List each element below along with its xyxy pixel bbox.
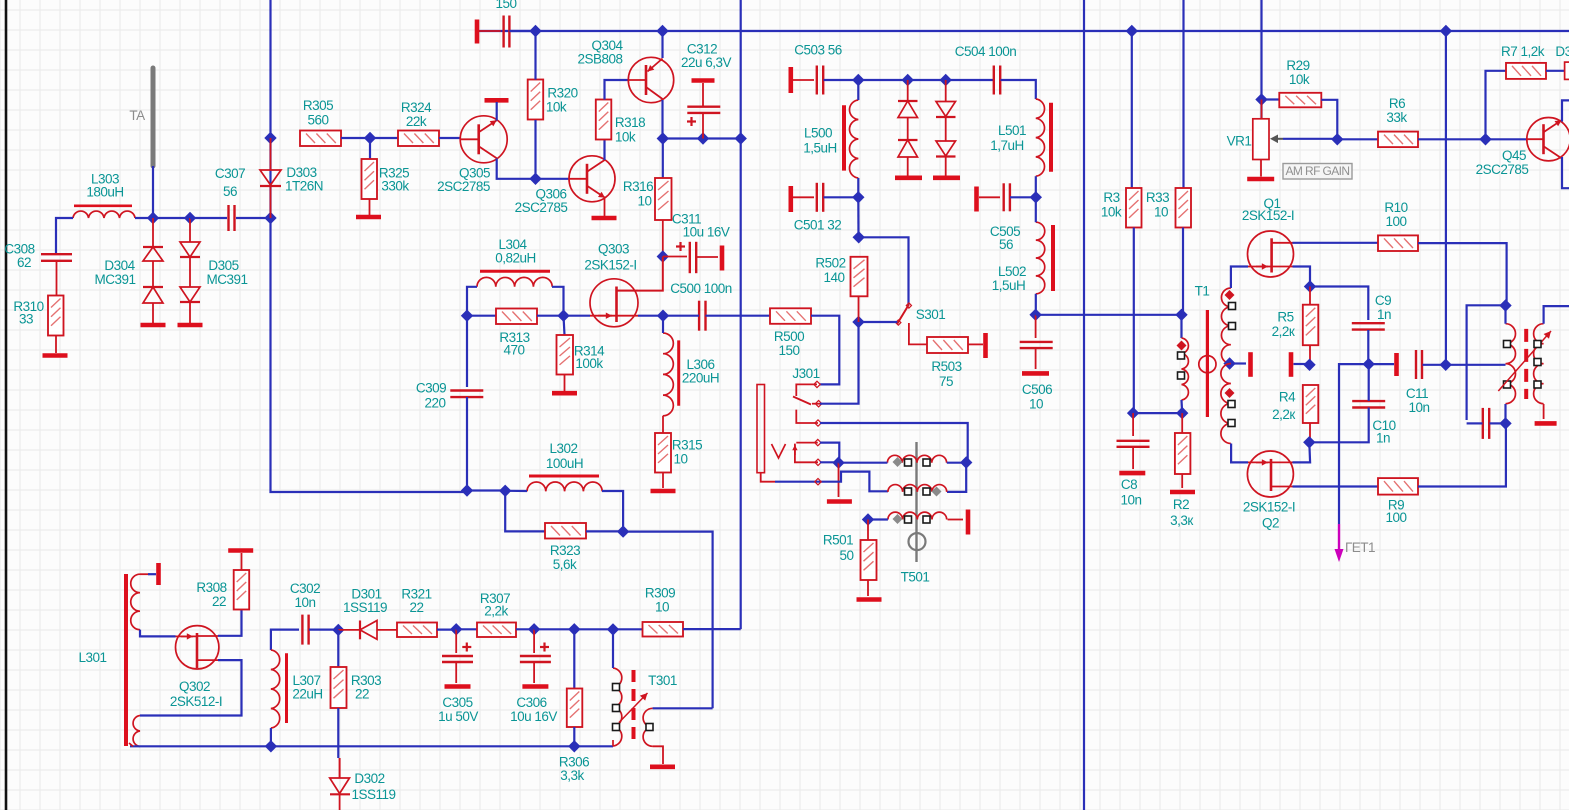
- wire C500 to R500: [706, 315, 771, 317]
- T1 tuning circle: [1199, 356, 1216, 373]
- svg-text:330k: 330k: [381, 179, 409, 194]
- capacitor C504: [994, 66, 1000, 95]
- inductor L306: [663, 333, 679, 416]
- svg-text:1SS119: 1SS119: [351, 787, 395, 802]
- inductor L302: [527, 476, 602, 491]
- node Q304c: [657, 132, 669, 144]
- label R321 value: [409, 600, 423, 615]
- ground bar under C506: [1022, 371, 1049, 376]
- svg-text:D305: D305: [208, 258, 238, 273]
- T1 secondary upper marks: [1225, 290, 1236, 330]
- svg-text:10k: 10k: [546, 100, 567, 115]
- wire T2 right top lead: [1544, 306, 1569, 324]
- resistor R316: [655, 178, 672, 220]
- T2 adjust arrow: [1498, 331, 1551, 391]
- label Q304: [591, 38, 623, 53]
- node T1 primary top: [1175, 309, 1187, 321]
- label L500 value: [803, 141, 837, 156]
- label R313 value: [503, 343, 524, 358]
- svg-text:56: 56: [999, 237, 1013, 252]
- T2 left marks: [1504, 341, 1511, 389]
- wire C505 to node: [1010, 196, 1036, 198]
- svg-text:10u 16V: 10u 16V: [510, 709, 557, 724]
- label L306 value: [682, 371, 719, 386]
- transistor Q1 (JFET): [1248, 231, 1294, 277]
- svg-text:R29: R29: [1286, 58, 1309, 73]
- wire Q306 collector to R318: [603, 140, 605, 160]
- resistor R10: [1378, 235, 1418, 251]
- label T501: [901, 570, 930, 585]
- label 150: [495, 0, 516, 11]
- node Q305e/R320: [529, 173, 541, 185]
- transformer T1 primary winding: [1182, 338, 1189, 400]
- svg-text:470: 470: [503, 343, 524, 358]
- label R502: [815, 256, 845, 271]
- label L304: [498, 237, 527, 252]
- ground under diode pair DB: [933, 157, 960, 178]
- label D3: [1555, 44, 1569, 59]
- svg-text:S301: S301: [916, 307, 946, 322]
- svg-text:220: 220: [424, 396, 445, 411]
- wire R6 to Q45 base: [1418, 138, 1527, 140]
- svg-text:150: 150: [778, 343, 799, 358]
- wire node C down to R325: [369, 138, 371, 159]
- svg-text:5,6k: 5,6k: [553, 557, 577, 572]
- label Q302 type: [170, 694, 222, 709]
- wire node to Q2 drain: [1293, 442, 1311, 462]
- inductor L500: [844, 100, 858, 178]
- antenna TA: [151, 68, 156, 166]
- ground under R2: [1170, 474, 1195, 492]
- svg-text:Q303: Q303: [598, 242, 629, 257]
- label R310: [13, 299, 43, 314]
- label R7 R7 1,2k: [1501, 44, 1545, 59]
- label Q45 type: [1476, 162, 1529, 177]
- node T1 secondary tap: [1223, 357, 1235, 369]
- svg-text:220uH: 220uH: [682, 371, 719, 386]
- label C8 value: [1120, 493, 1141, 508]
- svg-text:2SK152-I: 2SK152-I: [584, 258, 636, 273]
- label C311 value: [683, 225, 730, 240]
- wire node to C312 node: [663, 137, 741, 139]
- wire node to R501: [867, 520, 869, 541]
- wire C11 to node: [1423, 364, 1446, 366]
- jack J301 sleeve lead: [761, 473, 775, 482]
- label R320: [547, 86, 577, 101]
- svg-text:Q2: Q2: [1262, 516, 1279, 531]
- svg-text:22uH: 22uH: [292, 687, 322, 702]
- label L303: [91, 172, 119, 187]
- node C501/L500 bottom: [852, 191, 864, 203]
- wire R5 top lead: [1309, 287, 1311, 305]
- wire R502 bottom lead: [858, 296, 860, 322]
- node rail2/C11: [1440, 359, 1452, 371]
- resistor R325: [362, 159, 378, 199]
- wire T1 primary bottom lead: [1180, 400, 1183, 413]
- node R29/VR1: [1255, 93, 1267, 105]
- wire node down to R306: [573, 629, 575, 688]
- label R306: [559, 755, 589, 770]
- resistor R500: [770, 308, 811, 324]
- svg-text:2,2к: 2,2к: [1272, 407, 1295, 422]
- label C505 value: [999, 237, 1013, 252]
- power bar above Q305: [485, 98, 509, 103]
- label Q303: [598, 242, 629, 257]
- wire node up to R7: [1486, 71, 1507, 140]
- node R305/R325/R324: [364, 132, 376, 144]
- svg-text:2SC2785: 2SC2785: [1476, 162, 1529, 177]
- wire R313 to node: [537, 315, 564, 317]
- node after L303: [147, 212, 159, 224]
- label Q304 type: [577, 52, 622, 67]
- svg-text:1,7uH: 1,7uH: [990, 138, 1024, 153]
- resistor R5: [1303, 305, 1319, 346]
- terminal bar at 150 cap: [475, 20, 480, 44]
- svg-text:2,2k: 2,2k: [484, 604, 508, 619]
- svg-text:L301: L301: [78, 650, 106, 665]
- wire node down to R303: [337, 630, 339, 667]
- svg-text:22: 22: [409, 600, 423, 615]
- label R29 value: [1289, 72, 1310, 87]
- svg-text:3,3к: 3,3к: [1170, 513, 1193, 528]
- wire node down to R314: [564, 316, 565, 335]
- node R4/C10/Q2: [1303, 436, 1315, 448]
- wire R324 to Q305 base: [439, 137, 461, 139]
- node R307/C306: [528, 623, 540, 635]
- node R2 top: [1176, 407, 1188, 419]
- terminal bar before C11: [1394, 353, 1399, 376]
- resistor R314: [557, 335, 574, 375]
- wire L301 winding bottom to rail: [139, 745, 141, 747]
- label D304 type: [94, 272, 135, 287]
- svg-text:100k: 100k: [575, 356, 603, 371]
- wire node right and down x712: [623, 532, 713, 709]
- capacitor C10: [1352, 401, 1385, 407]
- resistor R306: [567, 689, 583, 728]
- wire Q45 emitter: [1562, 157, 1569, 188]
- capacitor C308: [41, 254, 72, 261]
- svg-text:1n: 1n: [1376, 431, 1390, 446]
- wire jack pin5 to node: [820, 461, 839, 463]
- T1 secondary lower marks: [1225, 388, 1236, 427]
- transformer T1 secondary lower: [1221, 364, 1231, 444]
- label R501: [823, 533, 853, 548]
- VR1 wiper: [1270, 135, 1283, 144]
- resistor R313: [496, 309, 537, 325]
- T301 adjust arrow: [619, 693, 648, 723]
- svg-text:C307: C307: [215, 166, 245, 181]
- svg-text:C9: C9: [1375, 293, 1391, 308]
- label R503 value: [939, 374, 953, 389]
- transistor Q303 (JFET): [590, 279, 638, 327]
- node C312: [697, 132, 709, 144]
- wire L303 to node A: [135, 217, 190, 219]
- switch S301 lever: [896, 303, 912, 325]
- label D302 type: [351, 787, 395, 802]
- wire T2 left top lead: [1504, 306, 1506, 324]
- svg-text:10n: 10n: [1408, 400, 1429, 415]
- svg-text:C309: C309: [416, 381, 446, 396]
- node T2 top: [1499, 299, 1511, 311]
- resistor R503: [927, 337, 968, 353]
- wire R9 right up to C12 node: [1418, 423, 1506, 486]
- resistor R305: [300, 131, 341, 147]
- jack J301 contact 2: [812, 401, 822, 407]
- svg-text:C306: C306: [516, 695, 546, 710]
- label R10: [1384, 200, 1407, 215]
- label R500 value: [778, 343, 799, 358]
- wire node to C9 top: [1310, 287, 1368, 321]
- label C500 C500 100n: [670, 281, 732, 296]
- svg-text:L501: L501: [998, 123, 1026, 138]
- wire jack pin4 to node: [820, 443, 839, 463]
- jack J301 tip V: [772, 444, 786, 458]
- label Q2 type: [1243, 500, 1295, 515]
- node rail/R320: [529, 25, 541, 37]
- svg-text:3,3k: 3,3k: [560, 768, 584, 783]
- node VR1/R6: [1331, 133, 1343, 145]
- diode D304 (lower): [143, 261, 163, 303]
- resistor R2: [1175, 433, 1191, 474]
- label R6: [1389, 96, 1405, 111]
- label R503: [931, 359, 961, 374]
- svg-text:10n: 10n: [1120, 493, 1141, 508]
- T2 right marks: [1534, 341, 1541, 389]
- svg-text:T301: T301: [648, 673, 677, 688]
- label R33 value: [1154, 205, 1168, 220]
- wire C10 top lead: [1368, 364, 1370, 401]
- svg-text:Q45: Q45: [1502, 148, 1526, 163]
- node L304/R313 left: [461, 310, 473, 322]
- wire vertical from top to VR1 column: [1260, 0, 1262, 119]
- wire Q1 drain to R10: [1293, 242, 1379, 244]
- node C8: [1127, 407, 1139, 419]
- label Q1: [1263, 196, 1280, 211]
- wire node down to L306: [662, 316, 664, 333]
- wire R7 right to D31: [1546, 70, 1569, 72]
- T501 w1 marks: [893, 457, 931, 467]
- wire Q1 source to node: [1293, 267, 1311, 287]
- wire top +V rail: [479, 30, 1569, 32]
- label C506 value: [1029, 397, 1043, 412]
- svg-text:R502: R502: [815, 256, 845, 271]
- resistor R321: [397, 623, 437, 638]
- wire junction down to R323: [505, 491, 545, 532]
- jack J301 contact 4: [796, 439, 821, 445]
- svg-text:C11: C11: [1406, 386, 1428, 401]
- wire L501 bottom: [1035, 176, 1037, 197]
- wire bar to R4R5 node: [1294, 363, 1310, 365]
- svg-text:1n: 1n: [1377, 307, 1391, 322]
- node diode pair 2: [940, 74, 952, 86]
- label R315: [672, 438, 702, 453]
- T501 winding 1: [887, 455, 946, 462]
- label R325 value: [381, 179, 409, 194]
- T501 winding 2: [888, 485, 947, 492]
- label C302 value: [294, 595, 315, 610]
- jack J301 contact 5: [795, 444, 821, 466]
- node rail/rail2: [1440, 25, 1452, 37]
- resistor R307: [477, 623, 516, 638]
- diode pair DA lower: [898, 118, 918, 158]
- wire node to C12 col: [1467, 305, 1506, 420]
- wire T1 sec bottom to Q2 gate: [1231, 444, 1248, 463]
- label C306 value: [510, 709, 557, 724]
- label R315 value: [673, 452, 687, 467]
- svg-text:ГЕТ1: ГЕТ1: [1345, 540, 1375, 555]
- node diode pair 1: [902, 74, 914, 86]
- resistor R320: [528, 80, 544, 120]
- resistor R323: [545, 523, 586, 539]
- wire R309 right up bus: [683, 628, 741, 630]
- label C503 C503 56: [794, 43, 842, 58]
- svg-text:R324: R324: [401, 100, 432, 115]
- wire L302 right: [602, 491, 623, 532]
- wire node down to R316: [662, 139, 664, 179]
- jack J301 lever 1: [793, 397, 811, 405]
- node Q303s/C500/L306: [657, 310, 669, 322]
- label C307: [215, 166, 245, 181]
- net GET1 arrow: [1335, 524, 1344, 562]
- diode D301: [338, 621, 397, 640]
- svg-text:22u 6,3V: 22u 6,3V: [681, 55, 732, 70]
- node Q1s/R5/C9: [1304, 280, 1316, 292]
- wire vertical from top to R33: [1182, 0, 1184, 189]
- node L302 left: [499, 485, 511, 497]
- label C308 value: [17, 255, 31, 270]
- svg-text:75: 75: [939, 374, 953, 389]
- label Q306 type: [515, 200, 568, 215]
- diode D304 (upper): [143, 218, 163, 261]
- label R323 value: [553, 557, 577, 572]
- svg-text:10: 10: [673, 452, 687, 467]
- transistor Q302 (JFET): [176, 626, 219, 669]
- diode D31 (clipped): [1565, 62, 1569, 79]
- transformer T2 core (dashed): [1524, 329, 1528, 399]
- wire L307 bottom to rail: [270, 728, 272, 746]
- terminal bar right of R503: [968, 333, 986, 358]
- svg-text:10k: 10k: [615, 130, 636, 145]
- svg-text:2SC2785: 2SC2785: [515, 200, 568, 215]
- wire Q2 source to R9: [1293, 485, 1379, 487]
- label D304: [104, 258, 135, 273]
- label D301: [351, 587, 381, 602]
- capacitor C500: [699, 301, 705, 331]
- wire C311 node down to Q303 drain: [617, 257, 663, 291]
- label L307 value: [292, 687, 322, 702]
- wire node to S301 contact: [859, 237, 909, 304]
- node R305 left: [264, 132, 276, 144]
- resistor R33: [1176, 188, 1192, 228]
- label L306: [686, 357, 714, 372]
- svg-text:180uH: 180uH: [86, 185, 123, 200]
- svg-text:1,5uH: 1,5uH: [803, 141, 837, 156]
- wire Q303 source to node: [638, 315, 663, 317]
- wire node to C307: [190, 217, 227, 219]
- label R4: [1279, 390, 1296, 405]
- label C306: [516, 695, 546, 710]
- label AM RF GAIN: [1285, 164, 1349, 178]
- label R33: [1146, 190, 1169, 205]
- node C311: [657, 250, 669, 262]
- wire L500 bottom lead: [857, 178, 859, 197]
- terminal bar right of C311: [720, 246, 725, 271]
- node L500 top: [852, 74, 864, 86]
- wire R33 down to T1 node: [1182, 228, 1184, 315]
- label R5: [1277, 310, 1293, 325]
- node L307/rail: [265, 740, 277, 752]
- label R324 value: [406, 114, 427, 129]
- node rail/Q304: [656, 25, 668, 37]
- node R306/rail: [568, 740, 580, 752]
- label R5 value: [1272, 324, 1295, 339]
- wire C309 down to net: [466, 397, 468, 491]
- ground bar under C306: [522, 684, 548, 689]
- jack J301 tip arrow: [792, 445, 797, 455]
- wire node C to R324: [370, 137, 398, 139]
- svg-text:R320: R320: [547, 86, 577, 101]
- svg-text:R10: R10: [1384, 200, 1407, 215]
- svg-text:R4: R4: [1279, 390, 1296, 405]
- wire C302 to node: [309, 628, 338, 630]
- label R9 value: [1385, 510, 1406, 525]
- node L501/C505/L502: [1030, 191, 1042, 203]
- wire bottom rail: [130, 745, 613, 747]
- L301 upper winding: [131, 574, 140, 630]
- node C309 bottom: [461, 484, 473, 496]
- wire C12 right lead: [1490, 422, 1506, 424]
- wire L502 bottom lead: [1035, 294, 1037, 315]
- ground under R310: [43, 336, 68, 356]
- label C309 value: [424, 396, 445, 411]
- label C308: [4, 242, 34, 257]
- svg-text:1,5uH: 1,5uH: [992, 278, 1026, 293]
- label R324: [401, 100, 432, 115]
- wire C11 node to T2 tap: [1446, 364, 1506, 366]
- wire R500 to jack pin1: [811, 316, 839, 385]
- wire R5 bottom lead: [1309, 345, 1311, 365]
- svg-text:10: 10: [655, 600, 669, 615]
- transistor Q2 (JFET): [1247, 451, 1293, 497]
- wire C12 left lead: [1467, 422, 1483, 424]
- label L502 value: [992, 278, 1026, 293]
- potentiometer VR1: [1253, 119, 1269, 160]
- svg-text:140: 140: [823, 270, 844, 285]
- svg-text:C302: C302: [290, 581, 320, 596]
- wire T501 w1 right: [947, 462, 966, 464]
- label R305 value: [307, 113, 328, 128]
- label R320 value: [546, 100, 567, 115]
- jack J301 contact 1: [796, 381, 820, 396]
- wire R307 to node: [516, 628, 534, 630]
- svg-text:56: 56: [223, 184, 237, 199]
- svg-text:1u 50V: 1u 50V: [438, 709, 478, 724]
- svg-text:33k: 33k: [1386, 110, 1407, 125]
- label R3: [1103, 190, 1119, 205]
- capacitor C9: [1352, 323, 1385, 329]
- svg-text:R503: R503: [931, 359, 961, 374]
- svg-text:AM RF GAIN: AM RF GAIN: [1285, 164, 1349, 178]
- node R306 top: [568, 623, 580, 635]
- svg-text:C501 32: C501 32: [794, 218, 842, 233]
- svg-text:R5: R5: [1277, 310, 1293, 325]
- label C501 C501 32: [794, 218, 842, 233]
- capacitor C11: [1416, 350, 1422, 379]
- transformer T1 secondary upper: [1221, 288, 1230, 364]
- resistor R318: [596, 100, 612, 140]
- wire C503 to node: [824, 79, 859, 81]
- wire node to R309: [613, 628, 643, 630]
